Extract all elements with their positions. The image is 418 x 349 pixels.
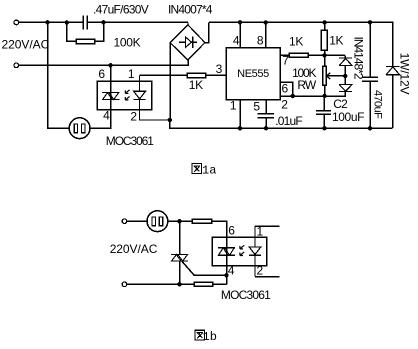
node dot wiper-diodes [343, 74, 347, 78]
svg-text:4: 4 [228, 263, 235, 277]
svg-text:1K: 1K [329, 33, 343, 47]
svg-text:1W/12V: 1W/12V [398, 53, 412, 95]
node dot C2-gnd [322, 126, 326, 130]
resistor R4 1K vertical from rail [324, 22, 326, 55]
svg-text:.01uF: .01uF [275, 114, 302, 128]
NE555 pin 6 stub wire [280, 82, 293, 96]
svg-text:4: 4 [233, 33, 240, 47]
resistor R2 1K to pin3 [140, 74, 226, 76]
MOC pin 4 wire [110, 93, 112, 129]
triac Q1 triangles [172, 255, 188, 262]
svg-text:MOC3061: MOC3061 [106, 134, 154, 148]
MOC LED D6 [249, 226, 261, 276]
wire bottom row [127, 283, 227, 285]
node dot gate-pin4 [224, 273, 228, 277]
MOC light arrows [125, 90, 129, 100]
svg-text:100K: 100K [114, 35, 141, 49]
top rail wire [209, 22, 393, 66]
svg-text:1: 1 [128, 67, 135, 81]
svg-text:6: 6 [98, 67, 105, 81]
node dot A1 [45, 20, 49, 24]
svg-text:C2: C2 [333, 97, 348, 111]
triac inside MOC: bars [218, 248, 235, 256]
svg-text:4: 4 [103, 109, 110, 123]
svg-text:2: 2 [257, 264, 264, 278]
MOC pin 6 inner wire [226, 237, 228, 248]
svg-text:MOC3061: MOC3061 [221, 288, 271, 302]
wire AC2 line [19, 60, 188, 65]
svg-text:NE555: NE555 [237, 68, 269, 80]
resistor R1 100K parallel branch [67, 22, 104, 41]
node dot pin2-MOC / bridge-left [168, 118, 172, 122]
node dot pot bottom [322, 94, 326, 98]
terminal J4 bottom [122, 282, 127, 287]
node dot pin1-gnd [238, 126, 242, 130]
diode D4 IN4148 lower [339, 76, 352, 92]
svg-text:3: 3 [216, 62, 223, 76]
svg-text:1b: 1b [203, 330, 217, 344]
caption 1a [192, 164, 201, 174]
svg-text:220V/AC: 220V/AC [110, 242, 158, 256]
optocoupler U2 MOC3061 box [97, 81, 152, 109]
terminal J2 bottom AC input [14, 63, 19, 68]
node dot pin6-pin2 [291, 94, 295, 98]
node dot C4-gnd [368, 126, 372, 130]
load lamp B2 [147, 211, 168, 232]
wire resistor to MOC pin6 [212, 221, 227, 237]
triac vertical line inside [226, 248, 228, 256]
node dot triac bottom [177, 282, 181, 286]
bridge rectifier D1 IN4007*4 diamond [170, 22, 209, 60]
MOC pin 2 wire [255, 276, 279, 278]
node dot 1K-rail [322, 20, 326, 24]
svg-text:470uF: 470uF [372, 90, 384, 119]
potentiometer wiper arrow [328, 75, 346, 77]
triac inside MOC: triangles [218, 248, 234, 256]
node dot pin8-rail [264, 20, 268, 24]
node dot AC2-pin6 [108, 63, 112, 67]
IC U1 NE555 box [226, 48, 280, 100]
capacitor C3 .01uF on pin 5 [258, 100, 275, 129]
wire step down to ground rail [170, 120, 393, 128]
MOC pin 4 wire [226, 255, 228, 284]
svg-text:1: 1 [257, 224, 264, 238]
capacitor C4 470uF [362, 22, 378, 128]
wire bridge left vertex down [169, 43, 171, 120]
caption glyph tu (box) [192, 164, 201, 174]
zener D5 1W/12V [386, 66, 400, 128]
wire AC1 top rail left [19, 21, 188, 23]
svg-text:2: 2 [130, 110, 137, 124]
svg-text:IN4007*4: IN4007*4 [168, 2, 213, 16]
NE555 pin 7 wire with resistor R3 1K [280, 54, 345, 56]
node dot triac top [177, 219, 181, 223]
NE555 pin 1 wire [239, 100, 241, 129]
svg-text:1a: 1a [202, 163, 216, 177]
caption glyph tu (box) b [195, 330, 204, 340]
MOC pin 6 wire [110, 65, 112, 92]
svg-text:RW: RW [297, 78, 316, 92]
node dot pin7 junction [322, 53, 326, 57]
svg-text:1K: 1K [289, 35, 303, 49]
wire load to resistor [168, 220, 192, 222]
node dot A3 [101, 20, 105, 24]
svg-text:5: 5 [253, 100, 260, 114]
svg-text:.47uF/630V: .47uF/630V [93, 2, 149, 16]
triac Q1 gate wire [182, 261, 227, 275]
resistor R5 top [192, 219, 212, 223]
MOC light arrows [240, 245, 244, 255]
capacitor C2 100uF [316, 96, 331, 128]
triac inside MOC: triangles [103, 93, 119, 100]
MOC pin 1 wire [255, 225, 279, 227]
svg-text:220V/AC: 220V/AC [2, 38, 50, 52]
svg-text:7: 7 [282, 54, 289, 68]
diode D3 IN4148 upper [339, 55, 352, 76]
wire left vertical to load [48, 22, 70, 128]
capacitor C1 .47uF/630V plates [83, 16, 87, 30]
bridge inner diode symbol [179, 37, 197, 48]
NE555 pin 2 wire row [280, 91, 345, 96]
svg-text:1: 1 [230, 99, 237, 113]
caption 1b [195, 330, 204, 340]
triac Q1 discrete: main line [179, 221, 181, 284]
triac Q1 bars [171, 255, 188, 262]
node dot C3-gnd [264, 126, 268, 130]
NE555 pin 4 wire [239, 22, 241, 47]
svg-text:IN4148*2: IN4148*2 [352, 37, 366, 80]
wire load to MOC pin4 [90, 110, 111, 129]
node dot 470uF-rail [368, 20, 372, 24]
MOC LED D2 [134, 75, 170, 120]
NE555 pin 8 wire [265, 22, 267, 47]
svg-text:6: 6 [228, 223, 235, 237]
resistor R6 bottom [194, 282, 213, 286]
svg-text:8: 8 [257, 33, 264, 47]
svg-text:1K: 1K [189, 78, 203, 92]
wire terminal to load [127, 220, 147, 222]
potentiometer RW 100K body [324, 55, 326, 96]
node dot A2 [65, 20, 69, 24]
terminal J3 top [122, 219, 127, 224]
svg-text:2: 2 [281, 97, 288, 111]
terminal J1 top AC input [14, 20, 19, 25]
triac inside MOC: bars [102, 93, 119, 100]
node dot pin4-rail [238, 20, 242, 24]
optocoupler U3 MOC3061 box [212, 237, 267, 266]
load lamp B1 [69, 118, 90, 139]
svg-text:100uF: 100uF [332, 110, 364, 124]
svg-text:6: 6 [282, 82, 289, 96]
